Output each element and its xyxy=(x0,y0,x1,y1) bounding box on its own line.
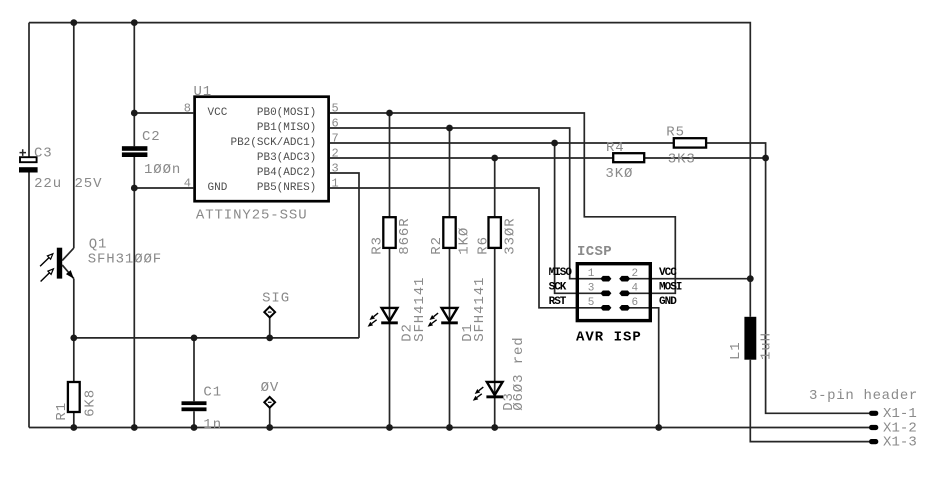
svg-text:4: 4 xyxy=(184,177,191,191)
svg-text:PB5(NRES): PB5(NRES) xyxy=(257,182,316,194)
svg-text:L1: L1 xyxy=(728,341,744,360)
svg-text:ICSP: ICSP xyxy=(577,244,612,260)
svg-text:Ø6Ø3 red: Ø6Ø3 red xyxy=(511,336,527,410)
svg-text:1: 1 xyxy=(588,268,595,280)
svg-text:PB1(MISO): PB1(MISO) xyxy=(257,122,316,134)
svg-text:C2: C2 xyxy=(142,129,161,145)
svg-text:PB3(ADC3): PB3(ADC3) xyxy=(257,152,316,164)
svg-text:1KØ: 1KØ xyxy=(457,227,473,255)
svg-text:R2: R2 xyxy=(429,236,445,255)
svg-text:VCC: VCC xyxy=(208,107,228,119)
svg-text:2: 2 xyxy=(632,268,639,280)
svg-text:AVR ISP: AVR ISP xyxy=(576,330,642,346)
svg-text:3-pin header: 3-pin header xyxy=(809,388,918,404)
svg-text:R3: R3 xyxy=(370,236,386,255)
svg-text:X1-3: X1-3 xyxy=(883,435,917,451)
svg-text:PB2(SCK/ADC1): PB2(SCK/ADC1) xyxy=(230,137,316,149)
svg-text:GND: GND xyxy=(208,182,228,194)
svg-text:3KØ: 3KØ xyxy=(605,166,633,182)
svg-text:6K8: 6K8 xyxy=(82,389,98,417)
svg-text:5: 5 xyxy=(332,102,339,116)
svg-text:GND: GND xyxy=(659,296,677,308)
svg-text:R6: R6 xyxy=(475,236,491,255)
svg-text:ØV: ØV xyxy=(261,380,280,396)
svg-text:3K3: 3K3 xyxy=(668,151,696,167)
svg-text:R1: R1 xyxy=(54,402,70,421)
svg-text:R5: R5 xyxy=(666,125,685,141)
svg-text:MISO: MISO xyxy=(549,267,573,279)
svg-text:6: 6 xyxy=(632,297,639,309)
svg-text:PB4(ADC2): PB4(ADC2) xyxy=(257,167,316,179)
svg-text:6: 6 xyxy=(332,117,339,131)
svg-text:33ØR: 33ØR xyxy=(503,217,519,254)
svg-text:SFH31ØØF: SFH31ØØF xyxy=(88,252,162,268)
svg-text:SFH4141: SFH4141 xyxy=(412,277,428,342)
svg-text:U1: U1 xyxy=(194,84,213,100)
svg-text:1n: 1n xyxy=(203,417,222,433)
svg-text:C1: C1 xyxy=(203,385,222,401)
svg-text:SFH4141: SFH4141 xyxy=(472,277,488,342)
svg-text:22u: 22u xyxy=(34,176,62,192)
svg-text:C3: C3 xyxy=(34,146,53,162)
svg-text:4: 4 xyxy=(632,282,639,294)
svg-text:Q1: Q1 xyxy=(89,237,108,253)
svg-text:3: 3 xyxy=(588,282,595,294)
svg-text:1: 1 xyxy=(332,177,339,191)
svg-text:R4: R4 xyxy=(606,140,625,156)
svg-text:8: 8 xyxy=(184,102,191,116)
svg-text:5: 5 xyxy=(588,297,595,309)
svg-text:7: 7 xyxy=(332,132,339,146)
svg-text:866R: 866R xyxy=(397,217,413,254)
svg-text:25V: 25V xyxy=(75,176,103,192)
svg-text:2: 2 xyxy=(332,147,339,161)
svg-text:RST: RST xyxy=(549,296,567,308)
svg-text:SIG: SIG xyxy=(262,291,290,307)
svg-text:MOSI: MOSI xyxy=(659,281,682,293)
svg-text:PB0(MOSI): PB0(MOSI) xyxy=(257,107,316,119)
svg-text:3: 3 xyxy=(332,162,339,176)
svg-text:VCC: VCC xyxy=(659,267,677,279)
svg-text:SCK: SCK xyxy=(549,281,567,293)
svg-text:1ØØn: 1ØØn xyxy=(144,162,181,178)
svg-text:ATTINY25-SSU: ATTINY25-SSU xyxy=(196,208,308,224)
svg-text:1uH: 1uH xyxy=(759,332,775,360)
